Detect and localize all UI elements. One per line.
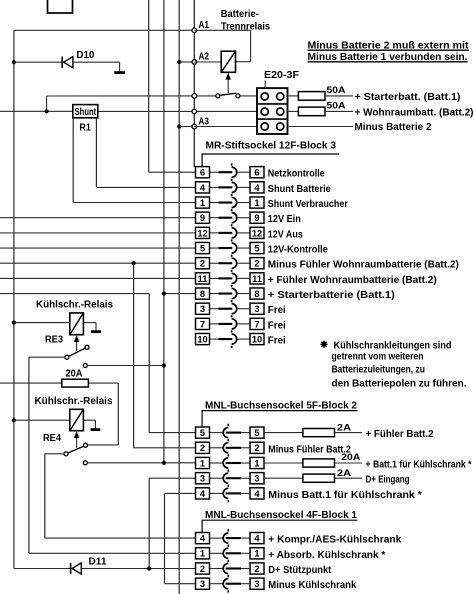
12F pin box 5 left [196,242,210,253]
svg-text:4: 4 [200,489,206,499]
fuse 20A on 5F pin 1 [264,462,303,464]
12F contact symbol pin 4 [210,186,219,188]
12F pin box 4 left [196,182,210,193]
svg-text:Shunt Verbraucher: Shunt Verbraucher [268,199,348,210]
svg-text:Batterie-: Batterie- [221,9,259,20]
fuse F2 50A [288,110,299,112]
component box off-page top-left [48,0,73,13]
svg-text:2: 2 [254,564,259,574]
svg-text:+ Absorb. Kühlschrank *: + Absorb. Kühlschrank * [268,550,385,561]
svg-text:50A: 50A [327,100,347,110]
5F pin box 2 row [196,442,210,453]
svg-text:MNL-Buchsensockel 5F-Block 2: MNL-Buchsensockel 5F-Block 2 [205,400,357,411]
12F contact symbol pin 3 [210,308,219,310]
wire: vertical line x1=148.7 from top to pin 6 row [148,0,150,172]
svg-text:1: 1 [254,458,259,468]
5F pin box 1 row [196,457,210,468]
relay K1 actuator arrow [227,79,229,93]
12F contact symbol pin 12 [210,232,219,234]
12F contact symbol pin 10 [210,338,219,340]
12F pin box 12 right [250,227,264,238]
12F pin box 10 left [196,333,210,344]
svg-text:+ Starterbatt. (Batt.1): + Starterbatt. (Batt.1) [355,92,461,103]
wire: main terminal bus x4=194.3 from top to 12F connector [193,0,195,167]
node A3 terminal circle [192,124,197,129]
12F pin box 11 left [196,273,210,284]
wire A2 to bus [179,61,194,63]
svg-text:R1: R1 [79,122,91,133]
wire vertical x=133.6 row2 down to 5F pin 2 [133,263,135,448]
svg-text:Minus Kühlschrank: Minus Kühlschrank [268,580,357,591]
wire RE4 common down to 4F pin 4 [45,453,64,455]
wire: Shunt right side to fuse block middle row [98,110,257,112]
12F contact symbol pin 8 [210,293,219,295]
12F contact symbol pin 11 [210,277,219,279]
svg-text:10: 10 [197,334,207,344]
svg-text:Batteriezuleitungen, zu: Batteriezuleitungen, zu [332,365,426,376]
svg-text:3: 3 [254,474,259,484]
wire 20A fuse down to RE4 arm [117,383,119,445]
switch RE3 contact arm [69,348,86,356]
svg-text:8: 8 [200,289,205,299]
wire RE3 contact to x2 [87,365,164,367]
svg-text:12: 12 [252,228,262,238]
svg-text:Frei: Frei [268,320,286,331]
wire shunt right terminal down to pin 4 row [95,118,97,188]
svg-text:Minus Batterie 2: Minus Batterie 2 [355,122,432,133]
svg-text:1: 1 [200,549,205,559]
svg-text:+ Batt.1 für Kühlschrank *: + Batt.1 für Kühlschrank * [366,460,472,471]
junction dot D+ line [147,566,151,570]
fuse block E20-3F [257,88,288,134]
5F pin box 5 row [196,427,210,438]
svg-text:1: 1 [200,198,205,208]
wire: A1 horizontal to far-left bus [14,29,194,31]
wire shunt left terminal down to pin 1 row [72,118,74,203]
svg-text:9: 9 [254,213,259,223]
12F pin box 2 left [196,258,210,269]
12F pin box 2 right [250,258,264,269]
wire: switch to fuse block top row [240,95,257,97]
12F pin box 7 right [250,318,264,329]
switch RE4 contact arm [68,446,84,453]
svg-text:5: 5 [254,428,259,438]
switch RE3 open contact [83,364,87,368]
svg-text:getrennt vom weiteren: getrennt vom weiteren [332,351,424,362]
fuse 2A on 5F pin 5 [264,432,303,434]
12F row pin 2: left wires [0,262,196,264]
svg-text:MR-Stiftsockel 12F-Block 3: MR-Stiftsockel 12F-Block 3 [206,141,337,152]
4F pin box 1 row [196,548,210,559]
svg-text:1: 1 [200,458,205,468]
wire 5F pin 4 down to 4F pin 3 [164,493,166,583]
12F connector body dashes [231,163,233,165]
ground for D10 [119,62,121,72]
relay RE4 coil [12,418,16,422]
svg-text:3: 3 [200,304,205,314]
ground for RE3 coil [83,322,96,324]
svg-text:D10: D10 [76,50,94,61]
12F pin box 1 right [250,197,264,208]
node A2 junction dot on x3 [177,60,181,64]
12F pin box 4 right [250,182,264,193]
svg-text:4: 4 [254,534,260,544]
resistor R1 Shunt [73,105,98,118]
svg-text:20A: 20A [341,452,361,462]
svg-text:Minus Batt.1 für Kühlschrank *: Minus Batt.1 für Kühlschrank * [268,490,422,501]
svg-text:2: 2 [200,564,205,574]
note: Kuehlschrankleitungen (asterisk note) [321,341,328,348]
svg-text:2: 2 [254,259,259,269]
svg-text:Minus Fühler Batt.2: Minus Fühler Batt.2 [268,444,351,455]
wire: off-page minus line y=111.3 to Shunt left [0,110,73,112]
svg-text:Kühlschr.-Relais: Kühlschr.-Relais [36,300,113,311]
svg-text:20A: 20A [66,369,83,380]
12F contact symbol pin 1 [210,202,219,204]
svg-text:6: 6 [200,168,205,178]
svg-text:2: 2 [200,259,205,269]
12F pin box 8 left [196,288,210,299]
relay K1 Batterie-Trennrelais coil [221,51,235,72]
svg-text:A1: A1 [199,20,210,31]
svg-text:A3: A3 [199,116,210,127]
wire: far-left minus bus vertical x=13.9 [13,30,15,568]
node A2 terminal circle [192,60,197,65]
node A3 junction dot on x3 [177,124,181,128]
svg-text:10: 10 [252,334,262,344]
wire off-page y=293.5 down to 5F pin 5 [0,293,149,295]
12F pin box 3 right [250,303,264,314]
fuse F1 50A [288,95,299,97]
svg-text:4: 4 [254,183,260,193]
svg-text:3: 3 [254,579,259,589]
4F pin box 2 row [196,563,210,574]
svg-text:12V Ein: 12V Ein [268,214,301,225]
svg-text:RE4: RE4 [43,433,62,444]
12F pin box 9 right [250,212,264,223]
svg-text:Netzkontrolle: Netzkontrolle [268,169,326,180]
svg-text:5: 5 [200,243,205,253]
wire: A1 to relay coil right side [194,29,250,31]
svg-text:den Batteriepolen zu führen.: den Batteriepolen zu führen. [332,378,467,389]
node terminal circle on bus y=95.9 [192,94,197,99]
switch S1 relay contact [220,93,237,95]
wire 5F pin 3 down to D+ line [148,478,150,568]
diode D11 [14,568,71,570]
svg-text:5: 5 [200,428,205,438]
svg-text:Kühlschr.-Relais: Kühlschr.-Relais [35,396,113,407]
svg-text:3: 3 [200,474,205,484]
node junction dot x=46.6 [45,109,49,113]
wire: switch feed line y=96 from shunt-line junction [47,95,216,97]
svg-text:12V-Kontrolle: 12V-Kontrolle [268,244,329,255]
wire Minus Batterie 2 [288,126,354,128]
wire A3 to bus [179,126,194,128]
relay RE4 actuator arrow [76,438,78,448]
svg-text:4: 4 [200,183,206,193]
12F row pin 12: left wires [0,232,196,234]
relay RE3 actuator arrow [76,342,78,352]
svg-text:2: 2 [254,443,259,453]
svg-text:7: 7 [200,319,205,329]
4F pin box 3 row [196,578,210,589]
wire RE4 contact to 5F pin 1 [87,462,195,464]
12F row pin 5: left wires [0,247,196,249]
12F pin box 11 right [250,273,264,284]
12F contact symbol pin 6 [210,171,219,173]
12F pin box 7 left [196,318,210,329]
junction dot row2 to 5F pin2 [132,261,136,265]
12F pin box 12 left [196,227,210,238]
svg-text:50A: 50A [327,85,347,95]
12F pin box 5 right [250,242,264,253]
svg-text:+ Fühler Wohnraumbatterie (Bat: + Fühler Wohnraumbatterie (Batt.2) [268,275,437,286]
fuse 2A on 5F pin 3 [264,477,303,479]
12F contact symbol pin 2 [210,262,219,264]
svg-text:+ Kompr./AES-Kühlschrank: + Kompr./AES-Kühlschrank [268,535,402,546]
12F pin box 3 left [196,303,210,314]
svg-text:Frei: Frei [268,335,286,346]
svg-text:2A: 2A [337,423,352,433]
svg-text:12: 12 [197,228,207,238]
svg-text:3: 3 [200,579,205,589]
5F pin box 3 row [196,473,210,484]
svg-text:8: 8 [254,289,259,299]
switch RE4 open contact [83,461,87,465]
12F contact symbol pin 7 [210,323,219,325]
svg-text:2A: 2A [337,468,352,478]
svg-text:Frei: Frei [268,305,286,316]
svg-text:1: 1 [254,198,259,208]
wire: vertical line x2=163.9 from top to 5F pin1 row [163,0,165,463]
svg-text:+ Fühler Batt.2: + Fühler Batt.2 [366,429,434,440]
wire RE3 common down to 4F pin 1 [29,356,65,358]
12F pin box 6 left [196,167,210,178]
4F connector body dashes [227,529,229,531]
wire A2 to relay coil left side [194,61,221,63]
12F row pin 8: left wires [164,293,196,295]
node A1 terminal circle [192,28,197,33]
svg-text:Kühlschrankleitungen sind: Kühlschrankleitungen sind [334,340,452,351]
svg-text:MNL-Buchsensockel 4F-Block 1: MNL-Buchsensockel 4F-Block 1 [205,510,358,521]
svg-text:5: 5 [254,243,259,253]
12F contact symbol pin 5 [210,247,219,249]
node terminal circle on bus y=111.4 [192,109,197,114]
svg-text:RE3: RE3 [45,335,64,346]
12F pin box 1 left [196,197,210,208]
svg-text:9: 9 [200,213,205,223]
svg-text:3: 3 [254,304,259,314]
4F pin box 4 row [196,533,210,544]
5F connector body dashes [227,424,229,426]
svg-text:11: 11 [198,274,208,284]
svg-text:Shunt: Shunt [75,107,97,118]
svg-text:1: 1 [254,549,259,559]
12F pin box 10 right [250,333,264,344]
svg-text:4: 4 [200,534,206,544]
svg-text:4: 4 [254,489,260,499]
5F pin box 4 row [196,488,210,499]
12F pin box 6 right [250,167,264,178]
svg-text:A2: A2 [199,51,210,62]
12F pin box 8 right [250,288,264,299]
svg-text:2: 2 [200,443,205,453]
svg-text:D11: D11 [89,557,108,568]
svg-text:E20-3F: E20-3F [264,70,299,81]
svg-text:Shunt Batterie: Shunt Batterie [268,184,332,195]
svg-text:D+ Stützpunkt: D+ Stützpunkt [268,565,332,576]
svg-text:11: 11 [252,274,262,284]
ground for RE4 coil [83,419,95,421]
svg-text:12V Aus: 12V Aus [268,229,303,240]
12F row pin 11: left wires [0,277,196,279]
12F row pin 9: left wires [0,217,196,219]
svg-text:Trennrelais: Trennrelais [221,22,270,33]
svg-text:Minus Fühler Wohnraumbatterie: Minus Fühler Wohnraumbatterie (Batt.2) [268,260,459,271]
svg-text:D+ Eingang: D+ Eingang [366,475,410,486]
svg-text:+ Wohnraumbatt. (Batt.2): + Wohnraumbatt. (Batt.2) [355,108,474,119]
12F pin box 9 left [196,212,210,223]
svg-text:7: 7 [254,319,259,329]
svg-text:+ Starterbatterie (Batt.1): + Starterbatterie (Batt.1) [268,290,395,301]
12F contact symbol pin 9 [210,217,219,219]
wire A3 to fuse block bottom row [194,126,257,128]
diode D10 [12,60,16,64]
svg-text:6: 6 [254,168,259,178]
relay RE3 coil [12,321,16,325]
wire: vertical line x3=179.2 full height [178,0,180,594]
